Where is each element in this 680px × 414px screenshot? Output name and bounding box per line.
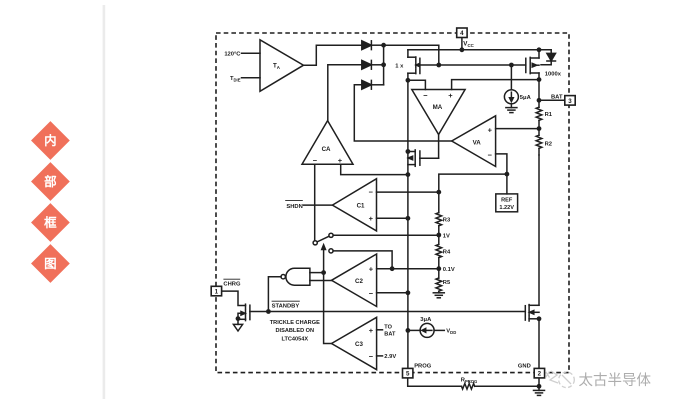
wire control node down to C3 output [324, 273, 332, 344]
node diode bus mid [381, 62, 386, 67]
resistor R5 [436, 269, 442, 293]
diode D1 [362, 41, 384, 50]
wire TA output to diode D1 [304, 45, 362, 65]
pin 4 box [457, 28, 467, 38]
svg-text:CA: CA [322, 146, 331, 153]
resistor R2 [536, 129, 542, 155]
svg-text:TDIE: TDIE [230, 76, 241, 82]
node REF branch [505, 172, 510, 177]
svg-text:BAT: BAT [384, 331, 396, 337]
wire diode bus to gate line [384, 45, 439, 65]
svg-text:TRICKLE CHARGE: TRICKLE CHARGE [270, 320, 320, 326]
wire diode summing bus [383, 45, 385, 85]
divider line between sidebar and content [103, 5, 106, 399]
wire gate line to power PMOS [439, 64, 526, 66]
label SHDN [285, 201, 303, 210]
svg-text:−: − [313, 156, 318, 165]
node M5 source [537, 316, 542, 321]
svg-text:TO: TO [384, 325, 392, 331]
label STANDBY [272, 301, 300, 309]
svg-text:CHRG: CHRG [223, 281, 241, 287]
wire C2 minus input to ITH rail [377, 292, 408, 294]
svg-text:1.22V: 1.22V [499, 205, 514, 211]
ground open triangle below M4 [233, 324, 242, 331]
transistor M4 CHRG NMOS [238, 304, 268, 324]
current source I2 3uA [408, 323, 444, 337]
node VCC pin junction [460, 47, 465, 52]
node drain of M1 [406, 78, 411, 83]
node BAT [537, 98, 542, 103]
op-amp C2 [332, 254, 377, 307]
wire M5 source to pin 2 [538, 319, 540, 369]
pin 1 box [211, 286, 221, 296]
wire pin2 down to ground [538, 378, 540, 390]
label TO BAT [384, 325, 396, 338]
svg-text:5μA: 5μA [520, 95, 532, 101]
svg-text:SHDN: SHDN [286, 204, 302, 210]
wire C3 plus stub [377, 329, 383, 331]
wire CA minus input down to switch [314, 164, 316, 240]
wire switch control arrow [322, 245, 326, 273]
svg-text:REF: REF [501, 197, 513, 203]
op-amp C3 [332, 317, 377, 369]
svg-text:TA: TA [273, 63, 281, 70]
svg-text:−: − [369, 352, 374, 361]
wire MA output to clamp gate [438, 135, 440, 159]
svg-text:3: 3 [568, 98, 572, 105]
node clamp source [406, 149, 411, 154]
diode D2 [362, 60, 384, 69]
switch S1 [313, 233, 333, 253]
pin 2 box [534, 368, 544, 378]
svg-text:DISABLED ON: DISABLED ON [276, 328, 315, 334]
svg-text:内: 内 [44, 133, 57, 148]
node power PMOS drain [537, 77, 542, 82]
svg-text:+: + [488, 125, 493, 134]
resistor R3 [436, 213, 442, 235]
svg-text:部: 部 [44, 174, 57, 189]
svg-text:C1: C1 [357, 203, 365, 210]
node M4 source [236, 316, 241, 321]
wire VCC rail [408, 49, 551, 51]
wire VA plus input [496, 128, 539, 130]
sidebar diamond 3 [31, 203, 70, 242]
svg-text:BAT: BAT [551, 94, 563, 100]
resistor R4 [436, 235, 442, 269]
svg-text:STANDBY: STANDBY [272, 303, 300, 309]
ground below pin 2 [534, 390, 545, 395]
wire switch lower contact to C2 plus [333, 251, 392, 269]
wire 120C input [242, 52, 261, 54]
svg-text:VA: VA [473, 139, 482, 146]
svg-text:+: + [369, 214, 374, 223]
wire NAND output to STANDBY node [268, 277, 281, 312]
resistor RPROG [462, 384, 475, 390]
svg-text:5: 5 [406, 371, 410, 378]
node ground junction [537, 384, 542, 389]
wire 1V tap to switch upper contact [333, 234, 439, 236]
current source I1 5uA [504, 65, 518, 108]
voltage reference REF 1.22V box [496, 194, 518, 212]
svg-text:120°C: 120°C [224, 51, 241, 57]
wire pin4 stub [461, 37, 463, 49]
node C1 plus [406, 216, 411, 221]
op-amp TA [260, 40, 304, 92]
transistor M5 PROG NMOS [525, 305, 539, 321]
svg-text:MA: MA [433, 104, 443, 111]
wire MA minus input [408, 80, 426, 89]
node C2 plus junction [390, 266, 395, 271]
svg-text:1 x: 1 x [395, 63, 404, 69]
wire drain to BAT node [538, 80, 540, 101]
svg-text:+: + [369, 326, 374, 335]
svg-text:VCC: VCC [463, 41, 474, 48]
svg-text:+: + [448, 91, 453, 100]
wire MA plus input to BAT drain [452, 80, 539, 90]
ground below 5uA source [506, 108, 517, 113]
diode body diode of M2 [541, 50, 556, 65]
svg-text:2: 2 [538, 371, 542, 378]
node NAND input / control [321, 270, 326, 275]
svg-text:−: − [423, 91, 428, 100]
op-amp C1 [332, 179, 376, 231]
wire BAT to pin 3 [539, 99, 565, 101]
svg-text:GND: GND [518, 363, 531, 369]
svg-text:−: − [369, 187, 374, 196]
svg-text:0.1V: 0.1V [443, 267, 455, 273]
op-amp VA [452, 116, 496, 167]
node C2 minus [406, 290, 411, 295]
watermark logo [546, 371, 575, 388]
svg-text:太古半导体: 太古半导体 [579, 372, 652, 389]
wire C3 minus stub [377, 355, 383, 357]
svg-text:1: 1 [215, 289, 219, 296]
wire CA plus input to ITH rail [341, 164, 408, 174]
svg-text:3μA: 3μA [420, 317, 432, 323]
svg-text:图: 图 [44, 257, 57, 271]
wire C1 plus input to ITH rail [377, 217, 408, 219]
pin 3 box [565, 96, 575, 106]
svg-text:R5: R5 [443, 280, 451, 286]
node 1V tap [436, 233, 441, 238]
wire 0.1V tap to C2 plus input [377, 268, 439, 270]
wire VA minus input to REF [496, 154, 507, 194]
node C1 minus REF junction [436, 190, 441, 195]
wire CA output up to diode D2 [328, 65, 362, 121]
diode D3 [362, 80, 384, 89]
wire NAND lower input from C2 output [310, 280, 332, 282]
wire C1 minus input to REF node [377, 191, 439, 193]
wire NAND upper input [310, 272, 324, 274]
sidebar diamond 2 [31, 162, 70, 201]
node CA plus / clamp drain [406, 172, 411, 177]
svg-text:−: − [488, 150, 493, 159]
node power PMOS source / VCC [537, 47, 542, 52]
svg-text:R4: R4 [443, 250, 451, 256]
svg-text:R1: R1 [545, 112, 553, 118]
svg-text:1000x: 1000x [545, 72, 562, 78]
svg-text:C3: C3 [355, 341, 363, 348]
sidebar diamond 4 [31, 244, 70, 283]
wire pin5 to RPROG to GND node [408, 378, 462, 386]
sidebar diamond 1 [31, 121, 70, 160]
svg-text:R3: R3 [443, 218, 451, 224]
svg-text:RPROG: RPROG [461, 378, 478, 384]
svg-text:−: − [369, 289, 374, 298]
transistor M2 power PMOS 1000x [526, 50, 539, 80]
pin 5 box [403, 368, 413, 378]
node gate line junction [436, 63, 441, 68]
svg-text:2.9V: 2.9V [384, 354, 396, 360]
wire STANDBY line to M5 gate [268, 311, 525, 313]
svg-text:1V: 1V [443, 233, 450, 239]
node R1 R2 junction [537, 126, 542, 131]
dashed IC boundary [216, 33, 569, 373]
wire SHDN to C1 output [304, 204, 333, 206]
node diode bus top [381, 43, 386, 48]
svg-text:+: + [369, 265, 374, 274]
svg-text:R2: R2 [545, 141, 552, 147]
svg-text:C2: C2 [355, 278, 363, 285]
wire pin1 CHRG to M4 drain [222, 291, 246, 305]
wire TDIE input [242, 77, 261, 79]
node STANDBY [266, 309, 271, 314]
node 0.1V tap [436, 266, 441, 271]
wire R2 down to M5 drain [538, 155, 540, 305]
wire RPROG to ground node [475, 385, 539, 387]
transistor M1 1x PMOS [408, 50, 439, 81]
op-amp MA [412, 90, 465, 135]
label CHRG [223, 279, 241, 287]
ground below R5 [433, 293, 444, 298]
svg-text:PROG: PROG [414, 363, 432, 369]
svg-text:VDD: VDD [446, 329, 456, 335]
svg-text:LTC4054X: LTC4054X [281, 336, 308, 342]
svg-text:框: 框 [44, 215, 57, 230]
resistor R1 [536, 100, 542, 128]
node 3uA on ITH rail [406, 328, 411, 333]
wire REF node to C1 minus branch [439, 174, 507, 213]
wire VA output to diode D3 [354, 85, 451, 141]
svg-text:+: + [338, 156, 343, 165]
svg-text:4: 4 [460, 30, 464, 37]
node 5uA tap [509, 63, 514, 68]
transistor M3 clamp NMOS [408, 150, 439, 166]
wire ITH rail [407, 80, 409, 368]
op-amp CA [302, 121, 353, 165]
gate G1 NAND [281, 268, 310, 285]
